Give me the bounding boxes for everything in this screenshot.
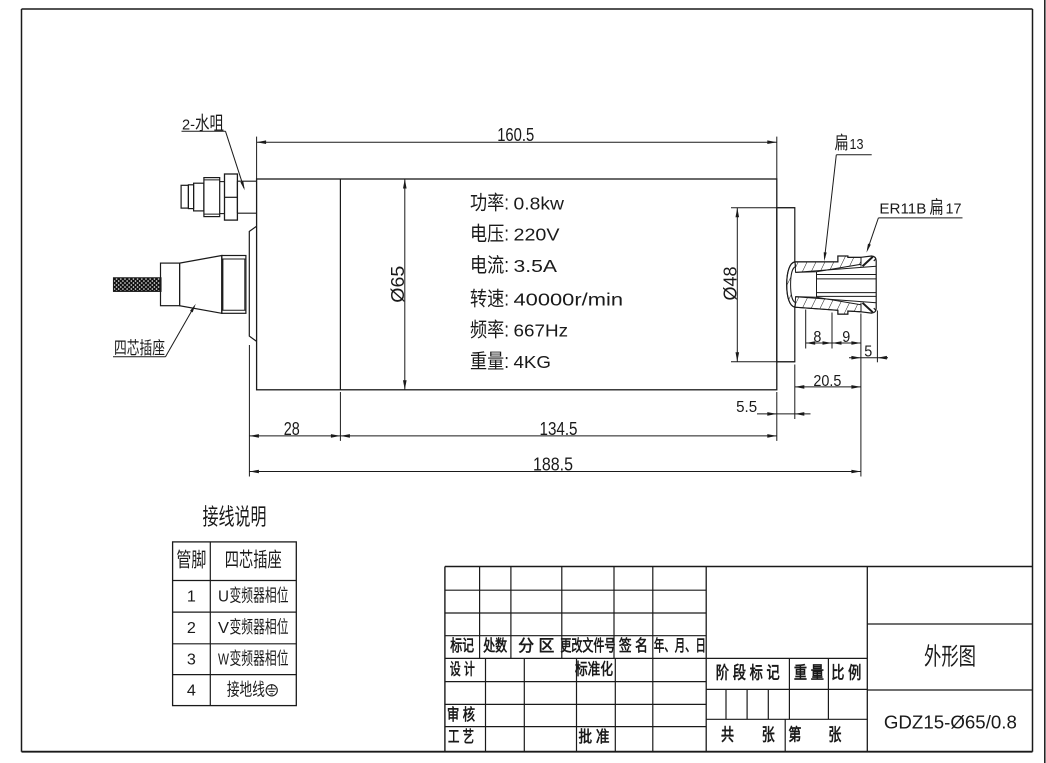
svg-text:9: 9 [842, 329, 850, 346]
svg-text:V: V [218, 620, 229, 637]
svg-text:188.5: 188.5 [533, 454, 573, 475]
svg-text:4KG: 4KG [514, 352, 552, 372]
svg-text:1: 1 [187, 589, 196, 606]
svg-text:四芯插座: 四芯插座 [225, 549, 282, 572]
svg-text:4: 4 [187, 682, 196, 699]
svg-text:变频器相位: 变频器相位 [230, 617, 289, 637]
svg-text:Ø48: Ø48 [719, 267, 740, 301]
svg-text:电压:: 电压: [470, 223, 509, 246]
svg-text:ER11B: ER11B [879, 200, 926, 217]
svg-text:审 核: 审 核 [447, 705, 475, 724]
svg-text:17: 17 [946, 200, 962, 217]
svg-text:工 艺: 工 艺 [448, 727, 474, 746]
svg-text:2: 2 [187, 620, 196, 637]
svg-text:第: 第 [788, 725, 801, 745]
svg-text:外形图: 外形图 [924, 644, 976, 671]
svg-text:阶 段 标 记: 阶 段 标 记 [716, 663, 780, 683]
svg-text:160.5: 160.5 [497, 124, 534, 145]
svg-text:管脚: 管脚 [176, 549, 206, 572]
svg-text:共: 共 [721, 726, 734, 745]
svg-text:扁: 扁 [835, 133, 849, 153]
svg-text:220V: 220V [514, 225, 560, 245]
svg-text:签 名: 签 名 [618, 636, 648, 655]
svg-text:0.8kw: 0.8kw [514, 194, 565, 214]
svg-text:40000r/min: 40000r/min [514, 290, 624, 310]
svg-text:667Hz: 667Hz [514, 320, 569, 340]
svg-text:Ø65: Ø65 [387, 266, 408, 303]
svg-text:接地线: 接地线 [227, 679, 265, 699]
svg-text:3: 3 [187, 651, 196, 668]
svg-text:5.5: 5.5 [736, 399, 757, 416]
svg-text:张: 张 [828, 726, 842, 745]
svg-text:2-: 2- [182, 116, 195, 133]
svg-text:GDZ15-Ø65/0.8: GDZ15-Ø65/0.8 [884, 712, 1017, 733]
svg-text:电流:: 电流: [470, 254, 509, 277]
svg-text:标准化: 标准化 [574, 659, 613, 678]
svg-text:更改文件号: 更改文件号 [560, 636, 615, 655]
svg-text:功率:: 功率: [470, 192, 509, 215]
svg-text:28: 28 [284, 418, 300, 439]
svg-text:分 区: 分 区 [518, 637, 554, 655]
svg-text:四芯插座: 四芯插座 [114, 338, 165, 358]
svg-text:13: 13 [850, 136, 864, 153]
svg-text:134.5: 134.5 [540, 418, 578, 439]
svg-text:比 例: 比 例 [831, 663, 861, 683]
svg-text:扁: 扁 [930, 197, 944, 217]
svg-text:转速:: 转速: [470, 288, 509, 311]
svg-text:20.5: 20.5 [813, 373, 841, 390]
svg-text:U: U [218, 589, 229, 606]
svg-text:重 量: 重 量 [794, 663, 824, 683]
svg-text:3.5A: 3.5A [514, 256, 558, 276]
svg-text:张: 张 [762, 726, 776, 745]
svg-text:变频器相位: 变频器相位 [230, 648, 289, 668]
svg-text:标记: 标记 [449, 637, 474, 655]
svg-text:批 准: 批 准 [579, 727, 610, 746]
svg-text:处数: 处数 [482, 636, 507, 655]
svg-text:变频器相位: 变频器相位 [230, 586, 289, 606]
svg-text:重量:: 重量: [470, 350, 509, 373]
svg-text:W: W [218, 651, 230, 668]
svg-text:8: 8 [813, 329, 821, 346]
svg-text:年、月、日: 年、月、日 [654, 636, 706, 655]
svg-text:频率:: 频率: [470, 318, 509, 341]
svg-text:设 计: 设 计 [450, 659, 475, 678]
svg-text:接线说明: 接线说明 [203, 504, 267, 530]
svg-text:5: 5 [864, 344, 872, 361]
